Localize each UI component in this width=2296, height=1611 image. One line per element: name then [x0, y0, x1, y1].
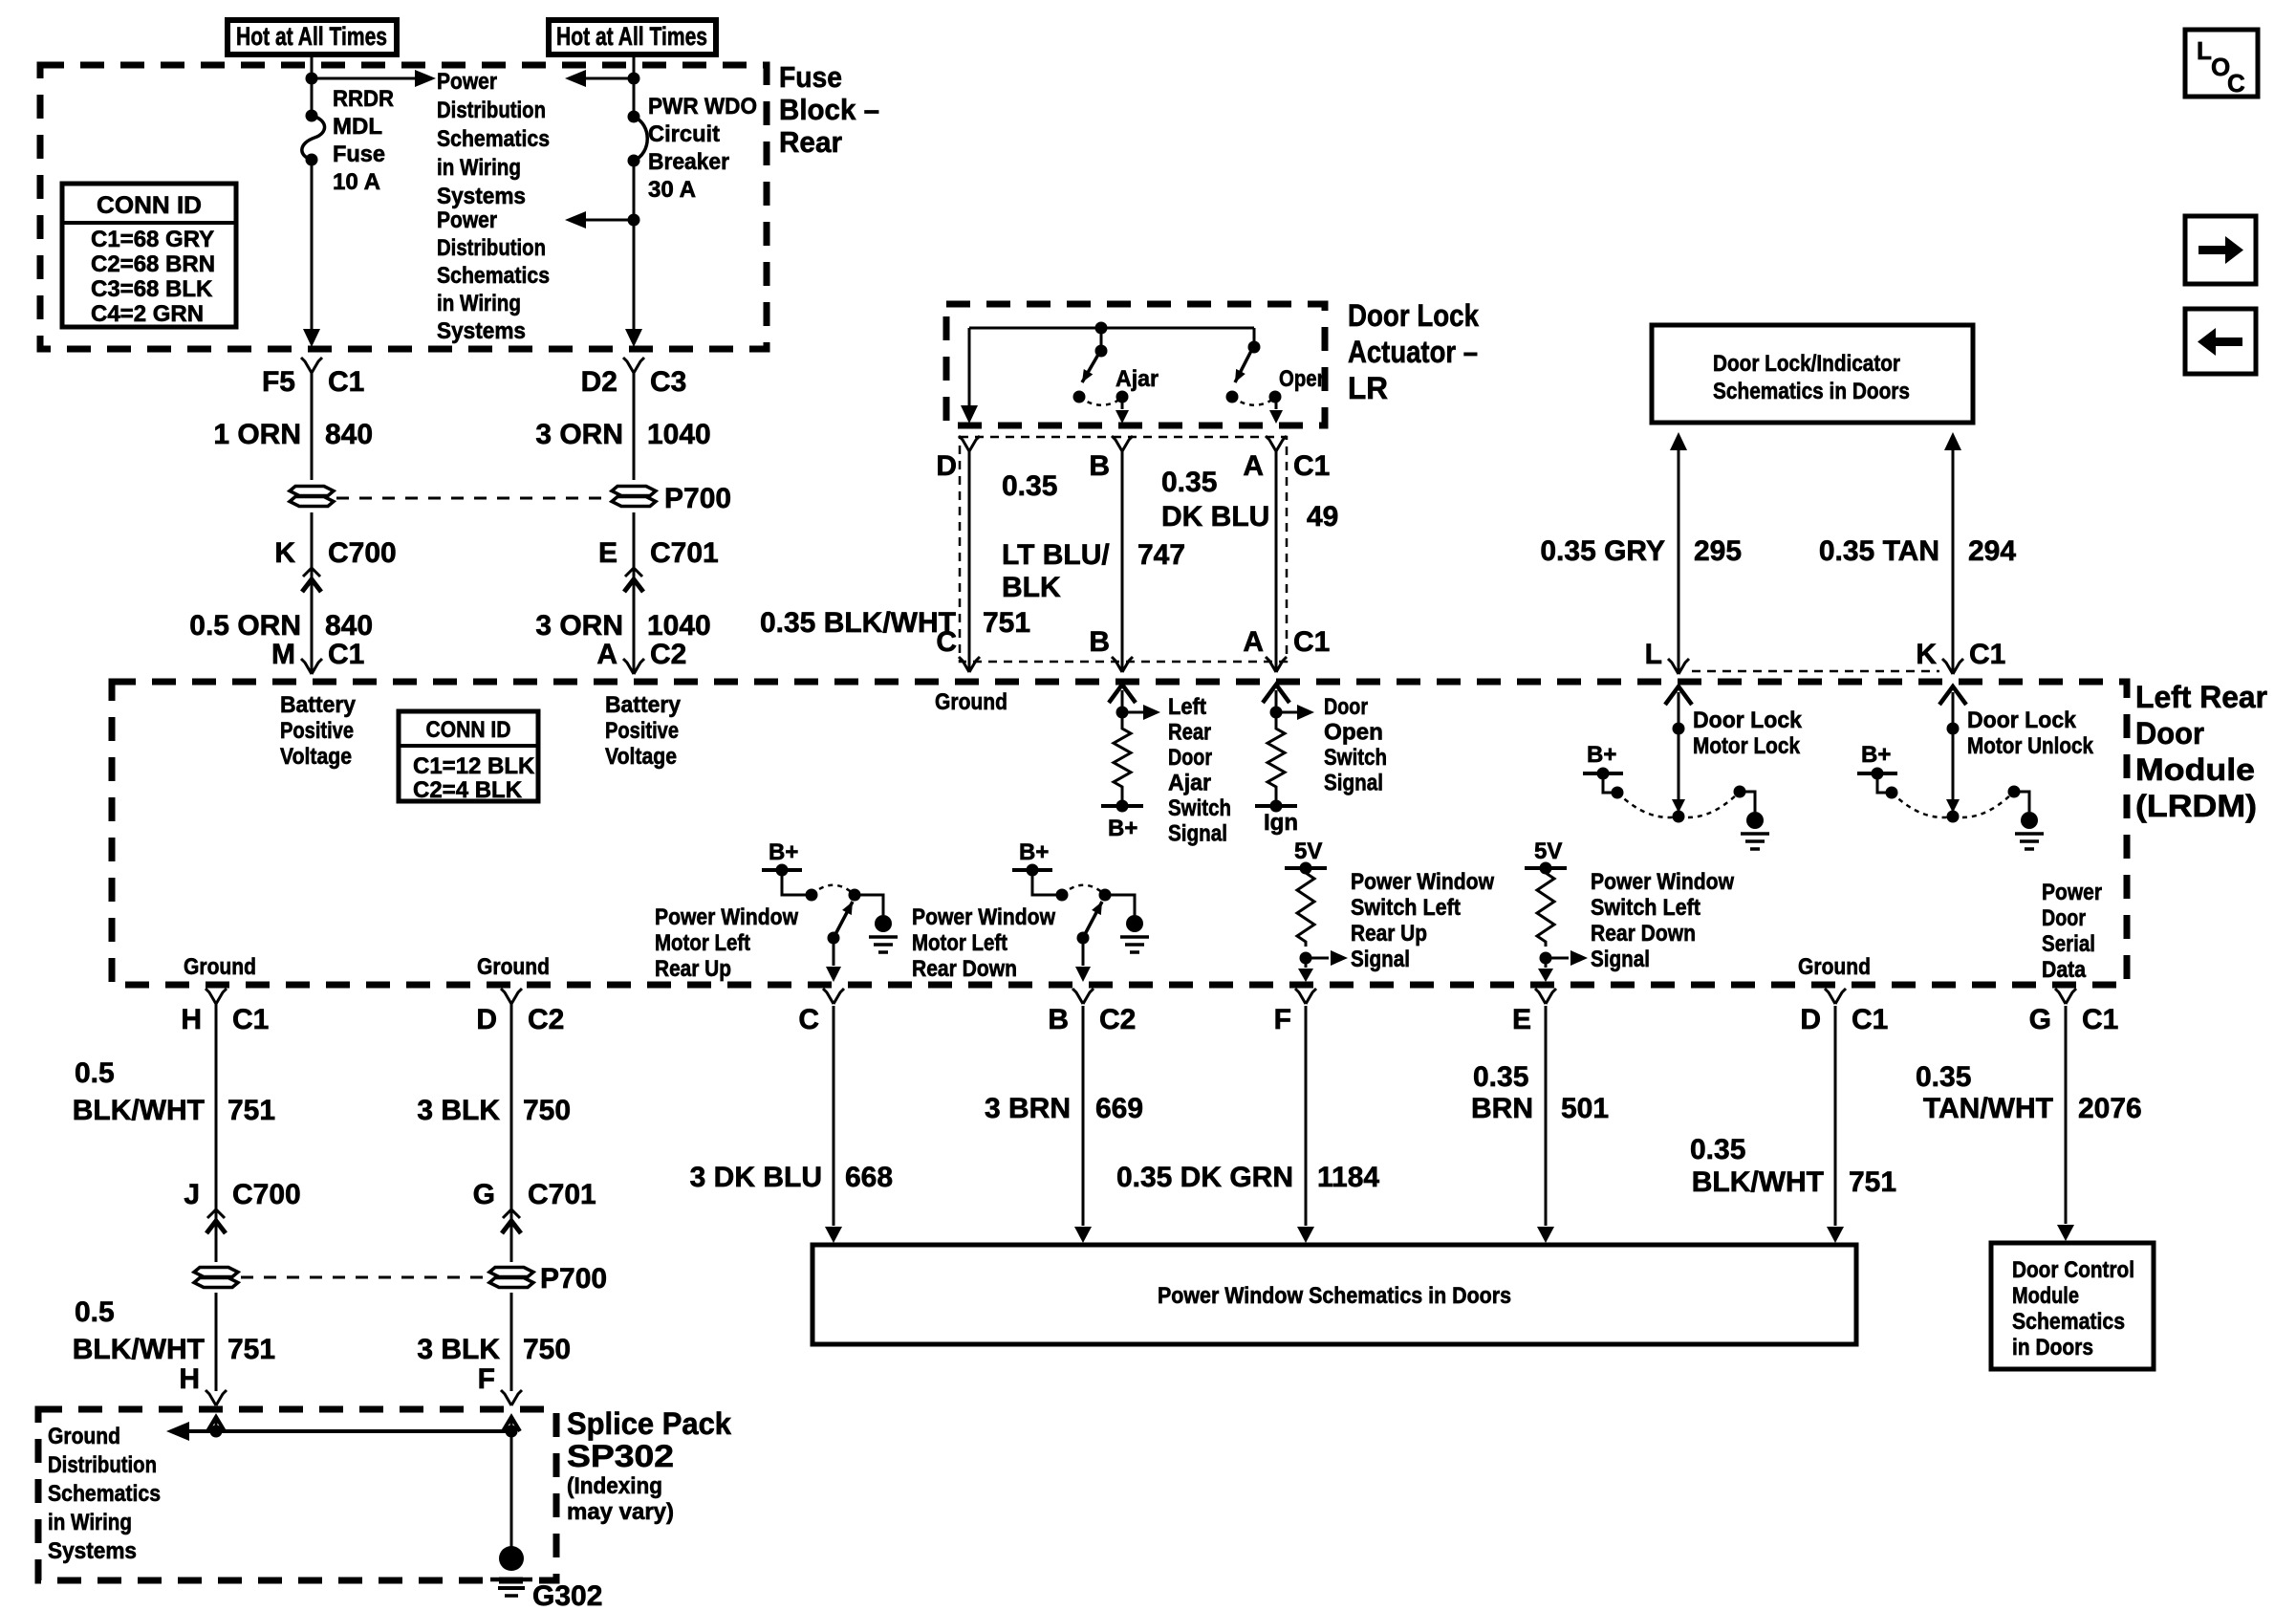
node B signal [1116, 707, 1129, 719]
wire D down [510, 1004, 513, 1262]
svg-text:Ign: Ign [1264, 810, 1298, 836]
door lock actuator enclosure [946, 304, 1325, 425]
connector B (actuator) [1112, 436, 1122, 451]
B+ rail (ajar) [1101, 804, 1143, 808]
svg-text:Signal: Signal [1351, 947, 1410, 972]
svg-text:D2: D2 [581, 366, 617, 398]
svg-text:L: L [2197, 36, 2212, 65]
connector D C2 (module exit) [501, 989, 511, 1004]
svg-text:Switch: Switch [1324, 745, 1387, 771]
splice pass-through right P700 [612, 487, 656, 496]
svg-text:Ground: Ground [935, 689, 1007, 715]
svg-text:Ground: Ground [1798, 954, 1871, 980]
ground leg (motor up) [855, 895, 883, 915]
wire B drop [1121, 451, 1124, 672]
svg-text:0.5: 0.5 [75, 1057, 115, 1089]
svg-text:Power: Power [2042, 880, 2102, 905]
wire F down [1305, 1006, 1308, 1226]
svg-text:Door: Door [2135, 716, 2204, 751]
svg-text:D: D [936, 450, 957, 482]
switch Ajar [1095, 322, 1108, 335]
svg-text:Battery: Battery [605, 692, 682, 718]
svg-text:Schematics: Schematics [48, 1481, 161, 1507]
connector H C1 (module exit) [206, 989, 216, 1004]
svg-text:F5: F5 [262, 366, 295, 398]
svg-text:Schematics: Schematics [437, 126, 550, 152]
svg-text:CONN ID: CONN ID [426, 717, 511, 743]
svg-text:0.35 GRY: 0.35 GRY [1540, 535, 1665, 567]
wire K entry [1939, 686, 1966, 705]
svg-text:Signal: Signal [1324, 771, 1383, 796]
svg-text:B+: B+ [1587, 742, 1616, 768]
dashed link splice pair (lower) [241, 1276, 487, 1279]
wire hot-left to fuse [311, 54, 314, 116]
svg-text:751: 751 [227, 1095, 275, 1126]
CONN ID table (module) [399, 711, 538, 801]
switch arc (unlock) [1892, 793, 1953, 817]
svg-text:SP302: SP302 [567, 1439, 674, 1473]
svg-text:Power Window: Power Window [655, 904, 798, 930]
svg-text:Power Window: Power Window [912, 904, 1055, 930]
svg-text:Distribution: Distribution [48, 1452, 157, 1478]
svg-text:Voltage: Voltage [280, 744, 352, 770]
wire E exit [1545, 958, 1548, 968]
svg-text:Power Window: Power Window [1591, 869, 1734, 895]
ground leg (motor down) [1105, 895, 1135, 915]
svg-text:0.35: 0.35 [1690, 1134, 1745, 1165]
svg-text:295: 295 [1694, 535, 1742, 567]
svg-text:C1: C1 [328, 366, 364, 398]
wire G down [2065, 1006, 2068, 1224]
splice bus SP302 [166, 1422, 189, 1441]
svg-text:B+: B+ [1861, 742, 1891, 768]
connector F into SP302 [501, 1390, 511, 1405]
svg-text:3 ORN: 3 ORN [535, 419, 623, 450]
wire H down [215, 1004, 218, 1262]
wire A drop [1275, 451, 1278, 672]
svg-text:Rear: Rear [779, 125, 842, 159]
wire arrow to power distribution [312, 77, 419, 80]
svg-text:BLK: BLK [1002, 572, 1061, 603]
svg-text:Ajar: Ajar [1116, 366, 1159, 392]
svg-text:747: 747 [1137, 539, 1185, 571]
wire E down [1545, 1006, 1548, 1226]
svg-text:C: C [2227, 69, 2245, 98]
svg-text:Door Lock: Door Lock [1693, 708, 1803, 733]
svg-text:Distribution: Distribution [437, 98, 546, 123]
svg-text:Circuit: Circuit [648, 121, 720, 147]
svg-text:Battery: Battery [280, 692, 357, 718]
svg-text:Door Lock: Door Lock [1967, 708, 2077, 733]
svg-text:PWR WDO: PWR WDO [648, 94, 757, 120]
connector H into SP302 [206, 1390, 216, 1405]
svg-text:C2: C2 [1099, 1004, 1136, 1035]
svg-text:0.35: 0.35 [1002, 470, 1057, 502]
svg-text:L: L [1645, 639, 1662, 670]
svg-text:0.5 ORN: 0.5 ORN [189, 610, 301, 642]
next-page arrow box [2185, 216, 2256, 284]
svg-text:DK BLU: DK BLU [1161, 501, 1269, 533]
svg-text:K: K [1916, 639, 1937, 670]
svg-text:C1: C1 [232, 1004, 269, 1035]
wire arrow-left to text (top) [586, 77, 634, 80]
svg-text:Power Window: Power Window [1351, 869, 1494, 895]
svg-text:Rear Up: Rear Up [655, 956, 731, 982]
svg-text:Positive: Positive [280, 718, 354, 744]
wire splice to K [311, 512, 314, 566]
svg-text:M: M [271, 639, 295, 670]
svg-text:BRN: BRN [1471, 1093, 1533, 1124]
svg-text:C1: C1 [1293, 450, 1330, 482]
svg-text:Signal: Signal [1591, 947, 1650, 972]
wire D2 to splice [633, 373, 636, 480]
svg-text:Hot at All Times: Hot at All Times [236, 22, 387, 51]
svg-text:Actuator –: Actuator – [1348, 335, 1478, 369]
svg-text:0.5: 0.5 [75, 1296, 115, 1328]
svg-text:Ajar: Ajar [1168, 771, 1211, 796]
svg-text:RRDR: RRDR [333, 86, 394, 112]
connector F (module exit) [1295, 989, 1306, 1004]
svg-text:0.35 TAN: 0.35 TAN [1819, 535, 1939, 567]
svg-text:P700: P700 [664, 483, 731, 514]
svg-text:F: F [478, 1363, 495, 1395]
svg-text:Module: Module [2012, 1283, 2079, 1309]
wire B down [1082, 1006, 1085, 1226]
svg-text:C1: C1 [1969, 639, 2005, 670]
connector C (module exit) [823, 989, 834, 1004]
arrow K to switch [1946, 799, 1960, 813]
svg-text:BLK/WHT: BLK/WHT [1692, 1166, 1824, 1198]
resistor rear up [1297, 868, 1314, 947]
svg-text:Rear Up: Rear Up [1351, 921, 1427, 947]
wire L up-arrow [1670, 432, 1687, 450]
connector D2 C3 [623, 358, 634, 373]
svg-text:Systems: Systems [437, 184, 526, 209]
svg-text:B+: B+ [1108, 816, 1137, 841]
door lock/indicator schematics box [1652, 325, 1973, 423]
svg-text:C3=68 BLK: C3=68 BLK [91, 276, 213, 302]
svg-text:C2=68 BRN: C2=68 BRN [91, 251, 215, 277]
svg-text:H: H [181, 1004, 202, 1035]
svg-text:Fuse: Fuse [333, 142, 385, 167]
svg-text:30 A: 30 A [648, 177, 696, 203]
resistor open pullup [1267, 724, 1285, 792]
svg-text:3 BLK: 3 BLK [417, 1334, 500, 1365]
svg-text:0.35: 0.35 [1916, 1061, 1971, 1093]
svg-text:CONN ID: CONN ID [97, 192, 202, 219]
svg-text:668: 668 [845, 1162, 893, 1193]
splice pass-through left P700 [290, 487, 334, 496]
svg-text:C700: C700 [232, 1179, 301, 1210]
wire actuator left drop [968, 328, 971, 407]
wire D down (right) [1834, 1006, 1837, 1226]
wire resistor to Ign [1275, 792, 1278, 806]
svg-text:Systems: Systems [437, 318, 526, 344]
svg-text:Block –: Block – [779, 93, 879, 126]
svg-text:Power: Power [437, 69, 497, 95]
blade (motor up) [828, 932, 840, 945]
svg-text:Door Lock/Indicator: Door Lock/Indicator [1713, 351, 1900, 377]
svg-text:C4=2 GRN: C4=2 GRN [91, 301, 204, 327]
svg-text:Module: Module [2135, 752, 2255, 787]
svg-text:Switch: Switch [1168, 795, 1231, 821]
svg-text:C701: C701 [528, 1179, 596, 1210]
svg-text:1040: 1040 [647, 610, 711, 642]
ground G302 [499, 1546, 524, 1571]
svg-text:B: B [1048, 1004, 1069, 1035]
svg-text:in Wiring: in Wiring [437, 291, 521, 316]
svg-text:501: 501 [1561, 1093, 1609, 1124]
svg-text:C2=4 BLK: C2=4 BLK [413, 777, 523, 803]
svg-text:C2: C2 [650, 639, 686, 670]
svg-text:J: J [184, 1179, 200, 1210]
splice P700 lower-right [489, 1268, 533, 1277]
svg-text:49: 49 [1307, 501, 1338, 533]
svg-text:Rear: Rear [1168, 720, 1211, 746]
svg-text:750: 750 [523, 1095, 571, 1126]
svg-text:Switch Left: Switch Left [1591, 895, 1700, 921]
svg-text:Schematics: Schematics [2012, 1309, 2125, 1335]
svg-text:750: 750 [523, 1334, 571, 1365]
svg-text:C701: C701 [650, 537, 719, 569]
svg-text:840: 840 [325, 419, 373, 450]
ground leg (lock) [1734, 786, 1746, 798]
svg-text:669: 669 [1095, 1093, 1143, 1124]
blade (motor down) [1077, 932, 1090, 945]
connector G C1 (module exit) [2055, 989, 2066, 1004]
svg-text:3 BLK: 3 BLK [417, 1095, 500, 1126]
svg-text:LT BLU/: LT BLU/ [1002, 539, 1110, 571]
wire K up-arrow [1944, 432, 1961, 450]
dashed link splice pair [336, 497, 609, 500]
switch Open [1253, 328, 1256, 347]
node F signal [1300, 952, 1312, 965]
svg-text:Power Window Schematics in Doo: Power Window Schematics in Doors [1158, 1283, 1511, 1309]
svg-text:Door: Door [1168, 745, 1212, 771]
svg-text:751: 751 [1849, 1166, 1896, 1198]
svg-text:Rear Down: Rear Down [912, 956, 1017, 982]
prev-page arrow box [2185, 309, 2256, 374]
fuse F5 RRDR MDL [302, 116, 325, 160]
switch arc (motor down) [1062, 885, 1104, 895]
svg-text:Power: Power [437, 207, 497, 233]
svg-text:C700: C700 [328, 537, 397, 569]
svg-text:E: E [1512, 1004, 1531, 1035]
switch arc (lock) [1617, 793, 1679, 817]
svg-text:D: D [1800, 1004, 1821, 1035]
svg-text:C1: C1 [1852, 1004, 1888, 1035]
node junction B-mid [628, 214, 640, 227]
svg-text:G: G [2029, 1004, 2051, 1035]
svg-text:Left Rear: Left Rear [2135, 680, 2267, 714]
svg-text:P700: P700 [540, 1263, 607, 1295]
svg-text:Motor Left: Motor Left [912, 930, 1007, 956]
svg-text:C: C [798, 1004, 819, 1035]
wire fuse to block edge [311, 160, 314, 331]
svg-text:Schematics in Doors: Schematics in Doors [1713, 379, 1910, 404]
wire K to M [311, 566, 314, 672]
wire breaker down [633, 161, 636, 331]
svg-text:may vary): may vary) [567, 1499, 674, 1525]
svg-text:3 DK BLU: 3 DK BLU [690, 1162, 822, 1193]
svg-text:Switch Left: Switch Left [1351, 895, 1461, 921]
svg-text:A: A [596, 639, 617, 670]
svg-text:Door Lock: Door Lock [1348, 298, 1479, 333]
svg-text:A: A [1243, 450, 1264, 482]
wire L entry [1665, 686, 1692, 705]
svg-text:0.35 BLK/WHT: 0.35 BLK/WHT [760, 607, 956, 639]
svg-text:C1: C1 [328, 639, 364, 670]
svg-text:Left: Left [1168, 694, 1206, 720]
wire splice to E [633, 512, 636, 566]
svg-text:Motor Left: Motor Left [655, 930, 750, 956]
wire actuator top bus [969, 327, 1254, 330]
svg-text:TAN/WHT: TAN/WHT [1923, 1093, 2053, 1124]
svg-text:Distribution: Distribution [437, 235, 546, 261]
wire F exit [1305, 958, 1308, 968]
svg-text:C: C [936, 626, 957, 658]
svg-text:C1=68 GRY: C1=68 GRY [91, 227, 214, 252]
wire C down [833, 1006, 835, 1226]
wire hot-right to breaker [633, 54, 636, 117]
wire D drop [968, 451, 971, 672]
svg-text:Fuse: Fuse [779, 60, 842, 94]
svg-text:294: 294 [1968, 535, 2016, 567]
svg-text:in Doors: in Doors [2012, 1335, 2093, 1361]
Ign rail [1255, 804, 1297, 808]
wire resistor to B+ (ajar) [1121, 792, 1124, 806]
svg-text:Schematics: Schematics [437, 263, 550, 289]
svg-text:Ground: Ground [477, 954, 550, 980]
wire A signal entry [1263, 685, 1289, 703]
svg-text:1184: 1184 [1317, 1162, 1379, 1193]
svg-text:G302: G302 [532, 1580, 602, 1611]
wire H splice down [215, 1293, 218, 1391]
svg-text:3 ORN: 3 ORN [535, 610, 623, 642]
svg-text:C3: C3 [650, 366, 686, 398]
switch arc (motor up) [812, 885, 854, 895]
door control module schematics box [1991, 1243, 2154, 1369]
svg-text:0.35: 0.35 [1473, 1061, 1528, 1093]
node E signal [1540, 952, 1552, 965]
svg-text:10 A: 10 A [333, 169, 380, 195]
hot at all times box right [549, 20, 716, 54]
svg-text:5V: 5V [1534, 838, 1562, 864]
svg-text:751: 751 [983, 607, 1030, 639]
ground leg (unlock) [2008, 786, 2021, 798]
svg-text:0.35 DK GRN: 0.35 DK GRN [1116, 1162, 1293, 1193]
svg-text:Voltage: Voltage [605, 744, 677, 770]
svg-text:in Wiring: in Wiring [437, 155, 521, 181]
wire arrow-left to text (mid) [586, 219, 634, 222]
svg-text:Systems: Systems [48, 1538, 137, 1564]
svg-text:C1=12 BLK: C1=12 BLK [413, 753, 535, 779]
svg-text:1040: 1040 [647, 419, 711, 450]
wire F splice down [510, 1293, 513, 1391]
svg-text:E: E [598, 537, 617, 569]
svg-text:Motor Unlock: Motor Unlock [1967, 733, 2094, 759]
svg-text:B+: B+ [769, 839, 798, 865]
svg-text:840: 840 [325, 610, 373, 642]
svg-text:5V: 5V [1294, 838, 1322, 864]
wire F to G302 [510, 1431, 513, 1549]
wire F5 to splice [311, 373, 314, 480]
svg-text:Serial: Serial [2042, 931, 2095, 957]
wire motor-down to B [1082, 938, 1085, 966]
arrow L to switch [1672, 799, 1685, 813]
svg-text:Hot at All Times: Hot at All Times [556, 22, 707, 51]
svg-text:F: F [1274, 1004, 1291, 1035]
actuator connector body (fine dash) [960, 437, 1287, 662]
svg-text:3 BRN: 3 BRN [985, 1093, 1071, 1124]
svg-text:2076: 2076 [2078, 1093, 2142, 1124]
wire H into bus [207, 1417, 225, 1431]
svg-text:G: G [473, 1179, 495, 1210]
svg-text:B+: B+ [1019, 839, 1049, 865]
svg-text:Door: Door [1324, 694, 1368, 720]
splice P700 lower-left [194, 1268, 238, 1277]
svg-text:Motor Lock: Motor Lock [1693, 733, 1801, 759]
svg-text:0.35: 0.35 [1161, 467, 1217, 498]
wire B signal entry [1109, 685, 1136, 703]
svg-text:in Wiring: in Wiring [48, 1510, 132, 1535]
svg-text:C1: C1 [2082, 1004, 2118, 1035]
node A signal [1270, 707, 1283, 719]
svg-text:Ground: Ground [184, 954, 256, 980]
fuse block - rear enclosure [40, 65, 767, 349]
svg-text:H: H [179, 1363, 200, 1395]
svg-text:BLK/WHT: BLK/WHT [73, 1334, 205, 1365]
hot at all times box left [227, 20, 397, 54]
wire E to A [633, 566, 636, 672]
node junction A-top [306, 73, 318, 85]
svg-text:1 ORN: 1 ORN [213, 419, 301, 450]
node junction B-top [628, 73, 640, 85]
svg-text:Rear Down: Rear Down [1591, 921, 1696, 947]
svg-text:MDL: MDL [333, 114, 382, 140]
svg-text:Data: Data [2042, 957, 2087, 983]
node K mid [1947, 723, 1960, 735]
connector D (actuator) [959, 436, 969, 451]
left rear door module enclosure [112, 682, 2127, 985]
wire motor-up to C [833, 938, 835, 966]
svg-text:751: 751 [227, 1334, 275, 1365]
svg-text:Door Control: Door Control [2012, 1257, 2134, 1283]
svg-text:BLK/WHT: BLK/WHT [73, 1095, 205, 1126]
svg-text:(LRDM): (LRDM) [2135, 789, 2257, 823]
svg-text:C2: C2 [528, 1004, 564, 1035]
svg-text:Ground: Ground [48, 1424, 120, 1449]
CONN ID table (fuse block) [62, 184, 236, 327]
resistor rear down [1537, 868, 1554, 947]
svg-text:Open: Open [1279, 366, 1329, 392]
connector B C2 (module exit) [1072, 989, 1083, 1004]
svg-text:(Indexing: (Indexing [567, 1473, 662, 1499]
connector A C1 (actuator) [1266, 436, 1276, 451]
svg-text:C1: C1 [1293, 626, 1330, 658]
svg-text:D: D [476, 1004, 497, 1035]
circuit breaker PWR WDO [634, 117, 647, 161]
power window schematics box [812, 1245, 1856, 1344]
splice pack SP302 enclosure [38, 1409, 556, 1580]
svg-text:Signal: Signal [1168, 821, 1227, 847]
connector E (module exit) [1535, 989, 1546, 1004]
svg-text:LR: LR [1348, 371, 1388, 405]
svg-text:B: B [1089, 450, 1110, 482]
svg-text:Breaker: Breaker [648, 149, 729, 175]
resistor ajar pullup [1114, 724, 1131, 792]
svg-text:Open: Open [1324, 720, 1383, 746]
